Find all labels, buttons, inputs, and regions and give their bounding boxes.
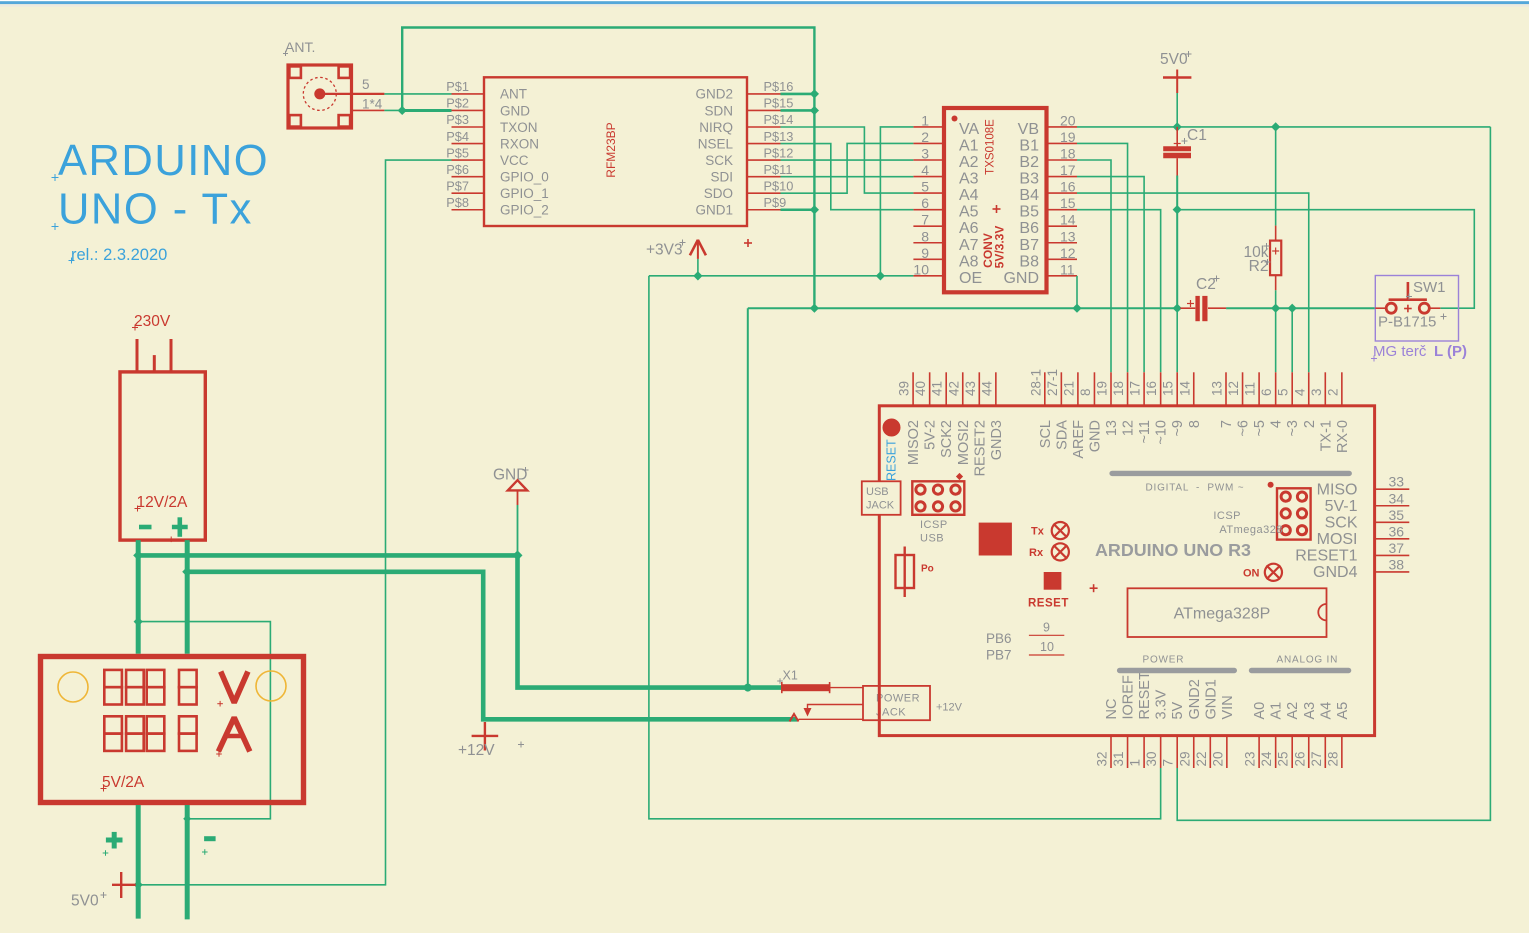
arduino top pin 8 GND: [1093, 372, 1095, 406]
svg-text:P$13: P$13: [764, 129, 794, 144]
svg-text:10: 10: [1040, 640, 1054, 654]
meter M1 box: [41, 657, 304, 803]
junction at P$2 node: [398, 106, 407, 115]
svg-text:SW1: SW1: [1413, 279, 1446, 296]
svg-text:4: 4: [1292, 388, 1307, 396]
arduino right pin 33 MISO: [1375, 488, 1410, 490]
svg-text:~9: ~9: [1170, 420, 1186, 437]
arduino right pin 36 MOSI: [1375, 538, 1410, 540]
svg-text:+12V: +12V: [936, 702, 963, 714]
svg-text:41: 41: [930, 381, 945, 396]
arduino bottom pin 27 A4: [1324, 736, 1326, 768]
svg-text:11: 11: [1060, 261, 1075, 277]
svg-text:8: 8: [1187, 420, 1203, 428]
svg-text:26: 26: [1292, 751, 1307, 766]
wire ANT to P$1: [384, 93, 451, 95]
RFM pin P$11 SDI: [747, 176, 781, 178]
svg-text:RESET2: RESET2: [972, 420, 988, 476]
converter pin 12 B8: [1047, 258, 1078, 260]
svg-text:2: 2: [1302, 420, 1318, 428]
svg-text:SDA: SDA: [1054, 420, 1070, 450]
converter pin 3 A2: [913, 159, 944, 161]
svg-text:GND: GND: [1087, 420, 1103, 452]
arduino top pin 3 TX-1: [1324, 372, 1326, 406]
arduino right pin 34 5V-1: [1375, 505, 1410, 507]
svg-text:11: 11: [1243, 382, 1258, 396]
wire pin5 drop: [1291, 308, 1293, 372]
svg-text:P$1: P$1: [446, 79, 469, 94]
svg-text:P$16: P$16: [764, 79, 794, 94]
arduino top pin 12 ~6: [1242, 372, 1244, 406]
svg-text:22: 22: [1194, 751, 1209, 766]
antenna connector X-ANT: [288, 65, 352, 128]
fuse Po: [896, 555, 915, 588]
svg-text:P$11: P$11: [764, 162, 793, 177]
meter hole right: [256, 671, 286, 701]
svg-text:B2: B2: [1019, 154, 1039, 171]
RFM pin P$14 NIRQ: [747, 126, 781, 128]
transformer primary pins: [136, 339, 139, 372]
svg-text:POWER: POWER: [1143, 655, 1185, 666]
wire top net (P$2/GND2 loop): [402, 28, 814, 309]
svg-text:SCK2: SCK2: [939, 420, 955, 458]
svg-text:4: 4: [921, 162, 929, 178]
red plus mark: [1090, 587, 1098, 589]
arduino top pin 13 7: [1225, 372, 1227, 406]
svg-text:RESET: RESET: [885, 439, 899, 481]
svg-text:~11: ~11: [1137, 420, 1153, 444]
converter pin 20 VB: [1047, 126, 1078, 128]
converter pin 4 A3: [913, 176, 944, 178]
arduino top pin 44 GND3: [995, 372, 997, 406]
wire SCK to A2: [781, 159, 914, 161]
svg-text:24: 24: [1259, 751, 1274, 767]
X1 pin2 arrow: [790, 714, 799, 722]
arduino bottom pin 7 5V: [1176, 736, 1178, 768]
svg-text:IOREF: IOREF: [1121, 675, 1137, 719]
arduino top pin 17 ~11: [1143, 372, 1145, 406]
svg-text:15: 15: [1161, 381, 1176, 396]
wire SDI to A3: [781, 176, 914, 178]
svg-text:A4: A4: [959, 187, 979, 204]
supply +3V3 arrow: [697, 240, 699, 259]
svg-text:A2: A2: [959, 154, 979, 171]
converter pin 5 A4: [913, 192, 944, 194]
converter pin 16 B4: [1047, 192, 1078, 194]
svg-text:ARDUINO: ARDUINO: [58, 137, 269, 185]
arduino bottom pin 31 IOREF: [1127, 736, 1129, 768]
svg-text:34: 34: [1389, 490, 1405, 506]
svg-text:3: 3: [921, 146, 929, 162]
svg-text:NC: NC: [1104, 699, 1120, 720]
wire pin15 drop: [1176, 308, 1178, 372]
svg-text:A6: A6: [959, 220, 979, 237]
wire plus net thick: [185, 540, 190, 654]
converter pin 14 B6: [1047, 225, 1078, 227]
svg-text:P$8: P$8: [446, 195, 469, 210]
junction VA-OE: [876, 271, 885, 280]
svg-text:TXON: TXON: [500, 120, 538, 135]
svg-text:PB7: PB7: [986, 648, 1012, 663]
svg-text:AREF: AREF: [1071, 420, 1087, 459]
junction GND2: [810, 89, 819, 98]
svg-text:NIRQ: NIRQ: [699, 120, 733, 135]
svg-text:SDN: SDN: [704, 103, 733, 118]
junction gnd sym node: [513, 550, 523, 560]
svg-text:3.3V: 3.3V: [1154, 689, 1170, 719]
arduino bottom pin 32 NC: [1110, 736, 1112, 768]
plus mark output: [106, 838, 123, 843]
svg-text:R2: R2: [1249, 258, 1269, 275]
svg-text:SDO: SDO: [704, 186, 733, 201]
RFM pin P$2 GND: [452, 109, 485, 111]
icsp usb diamond: [956, 473, 963, 480]
svg-text:12: 12: [1226, 381, 1241, 396]
minus mark output: [204, 836, 216, 841]
svg-text:SCK: SCK: [1325, 515, 1358, 532]
svg-text:+12V: +12V: [458, 742, 495, 759]
converter pin 10 OE: [913, 275, 944, 277]
svg-text:5V/3.3V: 5V/3.3V: [993, 226, 1007, 269]
svg-text:P$9: P$9: [764, 195, 787, 210]
svg-text:13: 13: [1104, 420, 1120, 436]
arduino top pin 2 RX-0: [1341, 372, 1343, 406]
wire GND2 P$16 to vertical: [781, 93, 815, 96]
arduino top pin 40 5V-2: [929, 372, 931, 406]
svg-text:B3: B3: [1019, 171, 1039, 188]
converter pin 17 B3: [1047, 176, 1078, 178]
switch SW1 symbol: [1375, 307, 1386, 309]
svg-text:39: 39: [897, 381, 912, 396]
svg-text:20: 20: [1210, 751, 1225, 766]
svg-text:~3: ~3: [1285, 420, 1301, 437]
svg-text:SCL: SCL: [1038, 420, 1054, 448]
arduino UNO R3 box: [879, 406, 1374, 736]
junction SDN: [810, 106, 819, 115]
svg-text:2: 2: [1325, 388, 1340, 396]
svg-text:TXS0108E: TXS0108E: [985, 119, 997, 175]
svg-text:MISO2: MISO2: [906, 420, 922, 465]
svg-text:B6: B6: [1019, 220, 1039, 237]
svg-text:VIN: VIN: [1220, 695, 1236, 719]
power jack arrow pin: [808, 705, 864, 710]
junction plus: [182, 567, 192, 577]
arduino red dot: [883, 419, 901, 437]
svg-text:1: 1: [921, 112, 929, 128]
svg-text:23: 23: [1243, 751, 1258, 766]
svg-text:3: 3: [1309, 388, 1324, 396]
wire VB 5V net: [1077, 126, 1490, 128]
svg-text:18: 18: [1060, 146, 1076, 162]
svg-text:28: 28: [1325, 751, 1340, 766]
svg-text:MOSI2: MOSI2: [956, 420, 972, 465]
svg-text:12V/2A: 12V/2A: [137, 494, 189, 511]
svg-text:20: 20: [1060, 112, 1076, 128]
svg-text:42: 42: [946, 381, 961, 396]
wire OE row to +3V3: [698, 275, 914, 277]
svg-text:37: 37: [1389, 540, 1405, 556]
wire B1 to pin18: [1077, 143, 1128, 372]
svg-text:Rx: Rx: [1029, 547, 1044, 559]
svg-text:5V-1: 5V-1: [1325, 498, 1358, 515]
svg-text:9: 9: [921, 245, 929, 261]
svg-text:C1: C1: [1187, 127, 1207, 144]
arduino top pin 15 ~9: [1176, 372, 1178, 406]
svg-text:27-1: 27-1: [1045, 369, 1060, 396]
svg-text:A2: A2: [1285, 702, 1301, 720]
arduino top pin 42 MOSI2: [962, 372, 964, 406]
arduino bottom pin 22 GND1: [1209, 736, 1211, 768]
svg-text:RESET: RESET: [1028, 598, 1069, 610]
connector X1 bar: [781, 684, 830, 691]
wire NIRQ to A4: [781, 127, 914, 193]
converter pin 8 A7: [913, 242, 944, 244]
svg-text:RESET1: RESET1: [1295, 548, 1357, 565]
wire NSEL to A5: [781, 144, 914, 210]
svg-text:29: 29: [1177, 751, 1192, 766]
svg-text:RFM23BP: RFM23BP: [604, 122, 618, 177]
svg-text:GND: GND: [493, 467, 527, 484]
wire meter sense loop: [138, 622, 270, 819]
junction conv GND: [1072, 304, 1081, 313]
wire SDN P$15 to vertical: [781, 109, 815, 112]
icsp usb header: [912, 481, 964, 515]
junction +3V3 node: [693, 271, 702, 280]
wire GND SW1 row: [748, 307, 1181, 309]
wire +3V3 to 3.3V pin 30: [649, 275, 698, 277]
junction loop bottom: [183, 815, 191, 823]
svg-text:25: 25: [1276, 751, 1291, 766]
arduino top pin 16 ~10: [1160, 372, 1162, 406]
svg-text:GPIO_0: GPIO_0: [500, 169, 549, 184]
svg-text:VCC: VCC: [500, 153, 529, 168]
svg-text:P$14: P$14: [764, 112, 794, 127]
svg-text:RX-0: RX-0: [1335, 420, 1351, 453]
converter pin 19 B1: [1047, 142, 1078, 144]
svg-text:1: 1: [1128, 759, 1143, 767]
meter letter V: [221, 672, 248, 703]
svg-text:VA: VA: [959, 121, 979, 138]
wire 5V right side down: [1177, 127, 1490, 820]
arduino bottom pin 23 A0: [1258, 736, 1260, 768]
svg-text:P$6: P$6: [446, 162, 469, 177]
svg-text:A1: A1: [959, 137, 979, 154]
svg-text:ICSP: ICSP: [1213, 510, 1241, 522]
svg-text:ATmega328: ATmega328: [1219, 524, 1283, 536]
svg-text:~6: ~6: [1236, 420, 1252, 437]
svg-text:8: 8: [921, 228, 929, 244]
arduino bottom pin 20 VIN: [1226, 736, 1228, 768]
svg-text:A4: A4: [1318, 702, 1334, 720]
arduino bottom pin 24 A1: [1275, 736, 1277, 768]
svg-text:5V/2A: 5V/2A: [102, 774, 145, 791]
svg-text:JACK: JACK: [866, 500, 895, 512]
supply +3V3 stub: [697, 259, 699, 276]
arduino top pin 6 4: [1275, 372, 1277, 406]
svg-text:ANT: ANT: [500, 87, 527, 102]
svg-text:GND: GND: [500, 103, 530, 118]
svg-text:230V: 230V: [134, 313, 171, 330]
wire 209 row to SW1 right: [1177, 210, 1474, 309]
svg-text:9: 9: [1043, 621, 1050, 635]
svg-text:5: 5: [362, 77, 370, 92]
svg-text:19: 19: [1060, 129, 1076, 145]
svg-text:GPIO_1: GPIO_1: [500, 186, 549, 201]
svg-text:+3V3: +3V3: [646, 242, 683, 259]
svg-text:5V0: 5V0: [1160, 51, 1188, 68]
svg-text:ICSP: ICSP: [920, 519, 948, 531]
svg-text:UNO - Tx: UNO - Tx: [58, 186, 253, 234]
converter pin 6 A5: [913, 209, 944, 211]
svg-text:P$5: P$5: [446, 145, 469, 160]
antenna pin 5 line: [320, 93, 385, 95]
svg-text:14: 14: [1060, 212, 1076, 228]
supply 5V0 top: [1176, 70, 1178, 94]
svg-text:28-1: 28-1: [1028, 369, 1043, 396]
red cross mark: [744, 242, 752, 244]
svg-text:SDI: SDI: [710, 169, 733, 184]
converter pin 18 B2: [1047, 159, 1078, 161]
RFM pin P$9 GND1: [747, 209, 781, 211]
svg-text:MOSI: MOSI: [1317, 531, 1358, 548]
RFM pin P$13 NSEL: [747, 143, 781, 145]
svg-text:rel.: 2.3.2020: rel.: 2.3.2020: [71, 246, 167, 264]
converter pin 7 A6: [913, 225, 944, 227]
arduino top pin 14 8: [1193, 372, 1195, 406]
junction C2 left: [1173, 304, 1182, 313]
svg-text:L (P): L (P): [1434, 343, 1467, 360]
arduino bottom pin 26 A3: [1308, 736, 1310, 768]
RFM pin P$3 TXON: [452, 126, 485, 128]
svg-text:Tx: Tx: [1031, 526, 1045, 538]
svg-text:ATmega328P: ATmega328P: [1174, 606, 1271, 623]
svg-text:GND: GND: [1003, 270, 1039, 287]
svg-text:17: 17: [1128, 381, 1143, 396]
svg-text:A0: A0: [1252, 702, 1268, 720]
wire minus net thick: [136, 540, 141, 654]
arduino top pin 18 12: [1127, 372, 1129, 406]
svg-text:GPIO_2: GPIO_2: [500, 203, 549, 218]
RFM pin P$6 GPIO_0: [452, 176, 485, 178]
converter pin 2 A1: [913, 142, 944, 144]
svg-text:5: 5: [921, 179, 929, 195]
svg-text:5V-2: 5V-2: [923, 420, 939, 450]
svg-text:14: 14: [1177, 380, 1192, 396]
transformer TR1 box: [120, 372, 205, 540]
svg-text:~5: ~5: [1252, 420, 1268, 437]
arduino top pin 39 MISO2: [912, 372, 914, 406]
wire B3 to pin17: [1077, 177, 1144, 373]
svg-text:13: 13: [1060, 228, 1076, 244]
svg-text:GND2: GND2: [695, 87, 733, 102]
converter + mark: [993, 208, 1001, 210]
meter digits row A: [104, 716, 122, 733]
svg-text:GND4: GND4: [1313, 564, 1358, 581]
svg-text:17: 17: [1060, 162, 1076, 178]
svg-text:P$2: P$2: [446, 96, 469, 111]
wire shield to P$2: [384, 109, 402, 111]
arduino bottom pin 25 A2: [1291, 736, 1293, 768]
svg-text:C2: C2: [1196, 276, 1216, 293]
svg-text:1*4: 1*4: [362, 97, 383, 112]
svg-text:38: 38: [1389, 556, 1405, 572]
junction minus: [133, 550, 143, 560]
wire gnd row down to X1: [747, 308, 749, 687]
svg-text:A8: A8: [959, 253, 979, 270]
arduino top pin 19 13: [1110, 372, 1112, 406]
svg-text:44: 44: [979, 380, 994, 396]
converter pin 13 B7: [1047, 242, 1078, 244]
svg-text:B4: B4: [1019, 187, 1039, 204]
svg-text:A5: A5: [959, 204, 979, 221]
arduino top pin 5 ~3: [1291, 372, 1293, 406]
RFM pin P$7 GPIO_1: [452, 192, 485, 194]
svg-text:A3: A3: [1302, 702, 1318, 720]
svg-text:PB6: PB6: [986, 631, 1012, 646]
svg-text:4: 4: [1269, 420, 1285, 428]
RFM pin P$1 ANT: [452, 93, 485, 95]
svg-text:A7: A7: [959, 237, 979, 254]
svg-text:10: 10: [913, 261, 929, 277]
arduino right pin 37 RESET1: [1375, 554, 1410, 556]
svg-text:P$10: P$10: [764, 178, 794, 193]
meter output wires: [136, 805, 141, 919]
svg-text:P$3: P$3: [446, 112, 469, 127]
svg-text:12: 12: [1060, 245, 1076, 261]
power bar: [1117, 668, 1237, 673]
arduino bottom pin 1 RESET: [1143, 736, 1145, 768]
svg-text:B7: B7: [1019, 237, 1039, 254]
resistor R2: [1275, 127, 1277, 226]
svg-text:GND1: GND1: [695, 203, 733, 218]
junction pin5 node: [1288, 304, 1297, 313]
junction vertical at GND row: [810, 304, 819, 313]
svg-text:P$7: P$7: [446, 178, 469, 193]
meter digits row V: [104, 670, 122, 687]
converter U-TXS0108E box: [944, 108, 1047, 292]
RFM pin P$15 SDN: [747, 109, 781, 111]
arduino right pin 35 SCK: [1375, 521, 1410, 523]
svg-text:~10: ~10: [1154, 420, 1170, 445]
wire VCC net: [137, 160, 452, 885]
junction GND1: [810, 205, 819, 214]
analog bar: [1249, 668, 1352, 673]
junction loop top: [134, 617, 143, 626]
wire B4 to pin4: [1077, 193, 1309, 372]
svg-text:A1: A1: [1269, 702, 1285, 720]
svg-text:DIGITAL - PWM ~: DIGITAL - PWM ~: [1146, 483, 1245, 494]
svg-text:6: 6: [1259, 388, 1274, 396]
converter pin1 dot: [952, 116, 958, 122]
svg-text:27: 27: [1309, 751, 1324, 766]
svg-text:7: 7: [1161, 759, 1176, 767]
wire B5 to pin16: [1077, 210, 1161, 373]
wire C1 down to GND row: [1176, 176, 1178, 309]
reset square: [1044, 572, 1062, 590]
svg-text:33: 33: [1389, 474, 1405, 490]
wire SDO to A1: [781, 143, 914, 193]
transformer minus mark: [139, 525, 152, 530]
svg-text:5V: 5V: [1170, 701, 1186, 719]
junction X1 node: [744, 684, 752, 692]
svg-text:POWER: POWER: [876, 693, 920, 705]
usb jack box: [862, 481, 901, 515]
switch SW1 box: [1375, 276, 1458, 342]
svg-text:A3: A3: [959, 171, 979, 188]
svg-text:P-B1715: P-B1715: [1378, 314, 1436, 331]
arduino top pin 11 ~5: [1258, 372, 1260, 406]
svg-text:ARDUINO UNO R3: ARDUINO UNO R3: [1095, 540, 1251, 560]
